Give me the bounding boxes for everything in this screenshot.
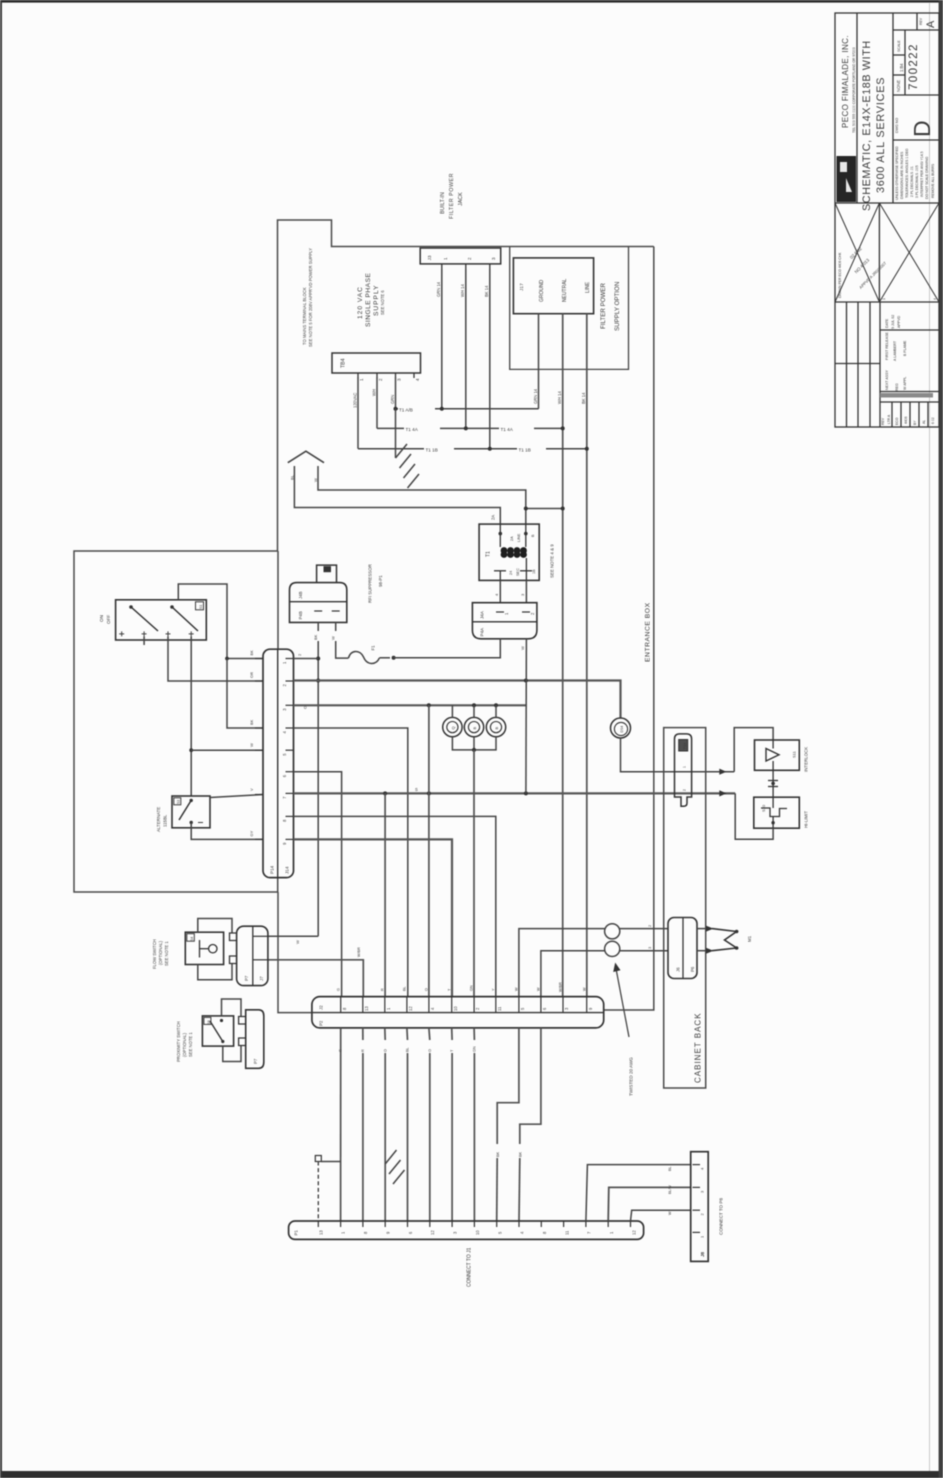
wire: J3 pin3 BK 14 down bbox=[484, 269, 490, 449]
svg-text:1:B4: 1:B4 bbox=[899, 63, 904, 72]
wire: flow switch J7 pin2 to P2 pin2 bbox=[268, 960, 363, 997]
wire: J3 pin1 GRN 14 down to node bbox=[436, 269, 442, 409]
svg-text:SCHEMATIC, E14X-E18B WITH: SCHEMATIC, E14X-E18B WITH bbox=[861, 40, 873, 211]
svg-text:WH: WH bbox=[372, 389, 377, 396]
svg-text:J4A: J4A bbox=[480, 610, 485, 619]
svg-text:P14: P14 bbox=[270, 865, 275, 874]
svg-text:M1: M1 bbox=[747, 935, 752, 942]
junction: lamp bus taps bbox=[427, 703, 431, 707]
wire: RFI/pin1 feed over to flow switch J7 pin1 bbox=[268, 935, 318, 937]
svg-text:GROUND: GROUND bbox=[539, 279, 545, 302]
wire row: J14 pin4 to P2 pin4 bbox=[294, 728, 408, 997]
connector P7 (proximity, unmated) bbox=[239, 1010, 264, 1069]
junction: P4A pin2 wire on white bus bbox=[524, 679, 528, 683]
wire: P14 pin1 stub from jumper bbox=[227, 658, 263, 660]
svg-text:REV: REV bbox=[919, 17, 923, 25]
svg-text:FLOW SWITCH: FLOW SWITCH bbox=[152, 939, 157, 969]
junction: TB4-3 / ground stem bbox=[394, 407, 398, 411]
svg-text:INTERLOCK: INTERLOCK bbox=[804, 747, 809, 772]
P14 pin stubs (left side) bbox=[255, 659, 263, 840]
svg-text:TEL 503 555 0100 CORPORATE POR: TEL 503 555 0100 CORPORATE PORTLAND OR 9… bbox=[852, 47, 856, 133]
svg-text:700222: 700222 bbox=[908, 43, 920, 90]
transformer T1 bbox=[479, 524, 539, 580]
wire: S1 contact stub bbox=[143, 636, 145, 645]
svg-text:BK: BK bbox=[249, 719, 254, 725]
svg-text:A LAMBERT: A LAMBERT bbox=[893, 340, 897, 361]
svg-text:BK: BK bbox=[249, 650, 254, 656]
svg-text:REG: REG bbox=[895, 383, 899, 391]
svg-text:120VAC: 120VAC bbox=[353, 393, 358, 408]
wire: alternate bottom contact to P14 pin9 bbox=[191, 823, 263, 840]
svg-text:1B: 1B bbox=[532, 569, 536, 574]
label: 120 VAC SINGLE PHASE SUPPLY bbox=[357, 273, 385, 327]
svg-text:2: 2 bbox=[467, 257, 472, 260]
wires: proximity switch loop to P7 bbox=[222, 999, 242, 1062]
label: PROXIMITY SWITCH (OPTIONAL) SEE NOTE 1 bbox=[176, 1021, 193, 1062]
svg-text:12: 12 bbox=[430, 1230, 435, 1235]
T1 winding bbox=[501, 547, 527, 558]
svg-text:W/BR: W/BR bbox=[357, 947, 361, 957]
cabinet back panel box bbox=[664, 728, 706, 1088]
chassis ground symbol (supply area) bbox=[396, 409, 420, 488]
switch compartment box (left of entrance box) bbox=[74, 551, 278, 892]
wire: neutral feed to T1 via jog bbox=[526, 508, 563, 510]
connector J3 (built-in filter power jack) bbox=[420, 248, 501, 269]
wire row: neutral bus T1 4A (TB4 pin2 + J3 pin2 + J17 neutral) bbox=[377, 378, 563, 429]
connector P14 / J14 bbox=[255, 649, 294, 877]
svg-text:BL: BL bbox=[290, 474, 295, 480]
svg-text:TS3: TS3 bbox=[683, 743, 687, 750]
svg-text:G: G bbox=[339, 1049, 343, 1052]
svg-text:3: 3 bbox=[648, 947, 652, 949]
T1 internal pins bbox=[494, 524, 532, 580]
svg-text:DRAWN PER ECO 4406 CHK: DRAWN PER ECO 4406 CHK bbox=[838, 252, 842, 298]
svg-text:T1: T1 bbox=[486, 551, 492, 557]
svg-text:TO MAINS TERMINAL BLOCK: TO MAINS TERMINAL BLOCK bbox=[302, 287, 307, 345]
wire: pin7 bus tap down to P2 pin3 bbox=[384, 793, 386, 996]
wire: J17 neutral WH 14 down long to P2 pin 11 bbox=[557, 314, 563, 997]
arrowhead into interlock wire bbox=[719, 769, 726, 775]
svg-text:UNLESS OTHERWISE SPECIFIED: UNLESS OTHERWISE SPECIFIED bbox=[895, 146, 899, 200]
svg-text:Q: Q bbox=[450, 726, 455, 729]
junction: taps on pin7 bus bbox=[383, 791, 387, 795]
svg-text:BK: BK bbox=[519, 1151, 523, 1157]
svg-text:P4B: P4B bbox=[298, 611, 303, 619]
svg-text:BK 14: BK 14 bbox=[484, 285, 489, 297]
toggle switch S1 (ON/OFF DPST) bbox=[99, 600, 206, 640]
junction: tap to P14 pin5 bbox=[189, 748, 193, 752]
wire: P2 pin9 up and over to J6 pin1 bbox=[519, 929, 668, 997]
svg-text:WH 14: WH 14 bbox=[460, 284, 465, 297]
svg-text:S11: S11 bbox=[792, 750, 797, 758]
svg-text:4: 4 bbox=[933, 298, 937, 300]
svg-text:W/BR: W/BR bbox=[559, 982, 563, 992]
svg-text:ECO: ECO bbox=[895, 417, 899, 425]
label: RFI SUPPRESSOR bbox=[368, 564, 384, 603]
svg-text:P7: P7 bbox=[253, 1058, 258, 1064]
wire row: J14 pin3 lamp bus bbox=[294, 704, 527, 706]
svg-text:GN: GN bbox=[473, 1046, 477, 1052]
svg-text:P1: P1 bbox=[294, 1230, 299, 1236]
svg-text:2: 2 bbox=[683, 789, 687, 791]
P1 pin numbers bbox=[319, 1230, 637, 1235]
wires: flow switch loop to P7 bbox=[198, 919, 232, 980]
svg-text:W: W bbox=[313, 478, 318, 482]
svg-text:LTR A: LTR A bbox=[887, 414, 891, 424]
wires: J6 to heater M1 with arrows bbox=[697, 929, 707, 951]
wire: lamp return down to P2 pin7 bbox=[473, 750, 475, 997]
wire: J17 line BK 14 down long to P2 pin 12 bbox=[581, 314, 587, 997]
svg-text:9 JUL 02: 9 JUL 02 bbox=[891, 315, 895, 329]
svg-text:O: O bbox=[425, 988, 429, 991]
wire: S1 jumper up-over to P14 pin1 bbox=[178, 584, 227, 659]
wire: P4A pin2 drop through buses bbox=[525, 639, 528, 794]
connector J2/P2 strip bbox=[312, 997, 604, 1028]
svg-text:T1 1B: T1 1B bbox=[519, 448, 531, 453]
svg-text:W: W bbox=[668, 1211, 672, 1215]
svg-text:SEE NOTE 1: SEE NOTE 1 bbox=[188, 1032, 193, 1057]
wire row: J14 pin6 to P2 pin1 bbox=[294, 772, 342, 997]
svg-text:PROXIMITY SWITCH: PROXIMITY SWITCH bbox=[176, 1021, 181, 1062]
wire: J8 pin4 to P1 pin13 bbox=[586, 1165, 691, 1221]
approval box diagonal notes bbox=[838, 246, 937, 300]
wire: DS4 bottom to J9 row bbox=[621, 738, 735, 772]
svg-text:R: R bbox=[381, 988, 385, 991]
svg-text:3: 3 bbox=[491, 257, 496, 260]
svg-text:W: W bbox=[331, 636, 336, 640]
svg-text:24: 24 bbox=[509, 571, 513, 575]
wire: J8 pin2 to P1 pin15 bbox=[631, 1210, 691, 1221]
svg-text:BK: BK bbox=[496, 1151, 500, 1157]
svg-text:WH 14: WH 14 bbox=[557, 391, 562, 404]
svg-text:BL/W: BL/W bbox=[668, 1185, 672, 1194]
flow switch S4 assembly bbox=[185, 932, 223, 964]
svg-text:2A: 2A bbox=[491, 515, 496, 520]
lamp DS4 bbox=[611, 718, 631, 738]
svg-text:S1: S1 bbox=[199, 605, 203, 609]
wire: RFI right pin down to fuse bbox=[336, 622, 349, 658]
wire: lamp bus tap down to P2 pin5 bbox=[428, 705, 430, 996]
svg-text:1: 1 bbox=[359, 378, 364, 381]
connector J8 bbox=[691, 1152, 709, 1262]
svg-text:115BL: 115BL bbox=[163, 814, 168, 827]
svg-text:6 02: 6 02 bbox=[931, 417, 935, 424]
inline connector pins between interlock and hi-limit bbox=[768, 770, 778, 797]
svg-text:11: 11 bbox=[565, 1230, 570, 1235]
svg-text:A: A bbox=[925, 20, 937, 28]
proximity switch S8 assembly bbox=[202, 1016, 233, 1046]
svg-text:REV: REV bbox=[881, 417, 885, 425]
svg-text:D: D bbox=[909, 120, 935, 137]
connector P4A / J4A bbox=[472, 603, 537, 639]
terminal block TB4 bbox=[332, 353, 421, 381]
svg-text:1: 1 bbox=[443, 257, 448, 260]
svg-text:GRN: GRN bbox=[390, 395, 395, 404]
svg-text:2A: 2A bbox=[510, 536, 514, 541]
svg-text:P4A: P4A bbox=[480, 627, 485, 637]
svg-text:SEC: SEC bbox=[516, 568, 520, 576]
svg-text:BL: BL bbox=[403, 986, 407, 991]
svg-text:4406: 4406 bbox=[904, 416, 908, 424]
svg-text:11: 11 bbox=[497, 1006, 502, 1011]
svg-text:DIMENSIONS ARE IN INCHES: DIMENSIONS ARE IN INCHES bbox=[900, 151, 904, 199]
connector J9/P9 (thermostat plug) bbox=[675, 734, 692, 806]
svg-text:BL: BL bbox=[668, 1166, 672, 1171]
drawing title text bbox=[861, 40, 887, 211]
junction: lamp return bbox=[472, 748, 476, 752]
twisted pair callout arrow bbox=[616, 966, 630, 1037]
filter power supply option outer box bbox=[510, 247, 629, 369]
svg-text:BY: BY bbox=[913, 420, 917, 425]
svg-text:B: B bbox=[494, 727, 499, 730]
svg-text:DS4: DS4 bbox=[620, 726, 624, 733]
P1 pin ticks (pins 1-15) bbox=[318, 1221, 630, 1227]
svg-text:DWG NO: DWG NO bbox=[895, 118, 899, 133]
svg-text:TB4: TB4 bbox=[341, 358, 347, 368]
TB4 pin numbers 1 2 3 4 bbox=[359, 378, 420, 381]
svg-text:W: W bbox=[249, 743, 254, 747]
svg-text:12: 12 bbox=[632, 1230, 637, 1235]
svg-text:4: 4 bbox=[415, 378, 420, 381]
svg-text:W: W bbox=[295, 940, 300, 944]
wire: chevron left lead to T1 2A bbox=[294, 466, 500, 524]
TITLE BLOCK (drawing title block, bottom-right of landscape sheet) bbox=[835, 13, 939, 427]
svg-text:AL: AL bbox=[922, 420, 926, 424]
svg-text:TWISTED 20 AWG: TWISTED 20 AWG bbox=[629, 1057, 634, 1096]
wire: S1 to alternate switch long drop bbox=[190, 636, 192, 796]
svg-text:T1 4A: T1 4A bbox=[406, 427, 419, 432]
interlock switch S11 box bbox=[755, 740, 800, 770]
svg-text:CONNECT TO J1: CONNECT TO J1 bbox=[467, 1247, 473, 1287]
junction: J17 line on bus bbox=[585, 447, 589, 451]
svg-text:FILTER POWER: FILTER POWER bbox=[449, 173, 455, 219]
junction: jumper node pin1 bbox=[225, 657, 229, 661]
wire: hi-limit return loop to pin7 bus bbox=[735, 793, 773, 839]
svg-text:RFI SUPPRESSOR: RFI SUPPRESSOR bbox=[368, 564, 373, 603]
svg-text:FIRST RELEASE: FIRST RELEASE bbox=[885, 332, 889, 360]
svg-text:2 PL DECIMALS .01: 2 PL DECIMALS .01 bbox=[910, 166, 914, 197]
svg-text:ENTRANCE BOX: ENTRANCE BOX bbox=[645, 602, 652, 662]
svg-text:P2: P2 bbox=[319, 1020, 324, 1026]
svg-text:(OPTIONAL): (OPTIONAL) bbox=[158, 940, 163, 965]
hi-limit thermostat S10 box bbox=[754, 797, 800, 828]
svg-text:O: O bbox=[384, 1049, 388, 1052]
svg-text:G: G bbox=[337, 988, 341, 991]
J2 pin numbers bbox=[342, 1006, 593, 1011]
connector J17 (filter supply terminals) bbox=[513, 258, 593, 314]
tolerance notes block bbox=[895, 146, 935, 200]
svg-text:2: 2 bbox=[648, 925, 652, 927]
junction: T1 line pin node bbox=[524, 507, 528, 511]
svg-text:(OPTIONAL): (OPTIONAL) bbox=[182, 1032, 187, 1057]
svg-text:J7: J7 bbox=[259, 976, 264, 981]
svg-text:13: 13 bbox=[364, 1006, 369, 1011]
wire row: J14 pin8 to P2 pin8 bbox=[294, 816, 496, 996]
label: BUILT-IN FILTER POWER JACK bbox=[440, 173, 464, 219]
svg-text:GN: GN bbox=[470, 985, 474, 991]
wire row: ground bus T1 A/B (TB4 pin3 + J3 pin1 + J17 ground) bbox=[396, 378, 539, 409]
svg-text:1: 1 bbox=[683, 766, 687, 768]
label: TO MAINS TERMINAL BLOCK note bbox=[302, 248, 313, 347]
svg-text:JACK: JACK bbox=[458, 192, 464, 206]
wire row: J14 pin7 bus to interlock bbox=[294, 792, 736, 794]
lamp bottom bus bbox=[452, 737, 496, 750]
junction: neutral tap bbox=[561, 507, 565, 511]
svg-text:CABINET BACK: CABINET BACK bbox=[694, 1012, 703, 1083]
power entry chevron flag bbox=[288, 451, 324, 463]
small title block cells text bbox=[895, 17, 923, 133]
svg-text:DO NOT SCALE DRAWING: DO NOT SCALE DRAWING bbox=[925, 156, 929, 199]
svg-text:CONNECT TO P8: CONNECT TO P8 bbox=[719, 1198, 724, 1235]
svg-text:J8: J8 bbox=[700, 1251, 705, 1257]
wire: alternate top contact to P14 pin7 bbox=[210, 795, 263, 798]
svg-text:GY: GY bbox=[249, 830, 254, 836]
svg-text:SEE NOTE 6: SEE NOTE 6 bbox=[380, 290, 385, 315]
svg-text:TOLERANCES: ANGLES 1 DEG: TOLERANCES: ANGLES 1 DEG bbox=[905, 148, 909, 198]
svg-text:W: W bbox=[583, 987, 587, 991]
svg-text:O: O bbox=[428, 1049, 432, 1052]
svg-text:13: 13 bbox=[319, 1230, 324, 1235]
svg-text:J17: J17 bbox=[519, 283, 525, 291]
connector J6/P6 bbox=[668, 918, 697, 979]
svg-text:DATE: DATE bbox=[885, 318, 889, 328]
svg-text:V: V bbox=[249, 788, 254, 791]
wire: P2 pin9 jog down to P1 pin9 with BK label bbox=[497, 1028, 519, 1221]
svg-text:ON: ON bbox=[99, 615, 104, 622]
wire: P2 pin10 jog down to P1 pin10 with BK label bbox=[519, 1028, 541, 1221]
indicator lamps DS1 DS2 DS3 bbox=[443, 717, 506, 736]
svg-text:10: 10 bbox=[475, 1230, 480, 1235]
wires: P2 pins 1-7 down to P1 with color labels bbox=[341, 1028, 475, 1221]
wire: J8 pin3 to P1 pin14 bbox=[608, 1187, 691, 1221]
J14 pin ticks (pins 1-9) bbox=[286, 659, 294, 840]
wire: J17 ground GRN 14 down bbox=[533, 314, 539, 409]
svg-text:S3: S3 bbox=[177, 800, 181, 804]
alternate switch S3 box bbox=[172, 796, 210, 828]
svg-text:O: O bbox=[303, 706, 308, 709]
svg-text:R: R bbox=[361, 1049, 365, 1052]
J2 pin ticks (pins 1-12) bbox=[341, 997, 587, 1013]
svg-text:B: B bbox=[472, 727, 477, 730]
chassis ground at P1 pin3 wire bbox=[385, 1150, 404, 1184]
label: FLOW SWITCH (OPTIONAL) SEE NOTE 1 bbox=[152, 939, 169, 969]
svg-text:W APPL: W APPL bbox=[903, 377, 907, 390]
wire: T1 secondary pins to P4A bbox=[500, 580, 526, 602]
svg-text:T1 1B: T1 1B bbox=[426, 448, 438, 453]
junction: fuse output node bbox=[392, 656, 396, 660]
wire: J3 pin2 WH 14 down bbox=[460, 269, 466, 428]
svg-text:INTERPRET PER ANSI Y14.5: INTERPRET PER ANSI Y14.5 bbox=[920, 151, 924, 197]
svg-text:NONE: NONE bbox=[896, 80, 901, 92]
svg-text:SUPPLY: SUPPLY bbox=[373, 284, 380, 316]
lamp top stubs bbox=[452, 705, 496, 717]
svg-text:SUPPLY OPTION: SUPPLY OPTION bbox=[614, 282, 621, 331]
svg-text:J4B: J4B bbox=[298, 591, 303, 599]
wire row: line bus T1 1B (TB4 pin1 + J3 pin3 + J17 line) bbox=[358, 378, 587, 449]
svg-text:FILTER POWER: FILTER POWER bbox=[600, 283, 607, 329]
junction: J3-1 on ground bus bbox=[440, 407, 444, 411]
wire row: J14 pin2 white bus to lamp DS4 bbox=[294, 681, 621, 719]
svg-text:J6: J6 bbox=[676, 967, 681, 972]
wire row: J14 pin1 to RFI node bbox=[294, 658, 319, 660]
J14 pin numbers bbox=[282, 661, 287, 845]
wire: chevron right lead to T1 line pin bbox=[318, 466, 526, 524]
revision table text bbox=[881, 315, 935, 425]
wire: S1 pole2 contact to P14 pin2 bbox=[168, 636, 263, 681]
svg-text:12: 12 bbox=[408, 1006, 413, 1011]
junction: RFI pin at P14 pin1 wire bbox=[316, 657, 320, 661]
svg-text:SEE NOTE 5 FOR 208V APPR'VD PO: SEE NOTE 5 FOR 208V APPR'VD POWER SUPPLY bbox=[308, 248, 313, 347]
wire: loop up-over into interlock box bbox=[734, 728, 773, 772]
svg-text:BK: BK bbox=[313, 634, 318, 640]
label: ALTERNATE 115BL bbox=[156, 807, 168, 832]
svg-text:10: 10 bbox=[453, 1006, 458, 1011]
svg-text:SEE NOTE 1: SEE NOTE 1 bbox=[164, 941, 169, 966]
svg-text:P7: P7 bbox=[244, 975, 249, 981]
svg-text:J2: J2 bbox=[319, 1005, 324, 1010]
svg-text:LINE: LINE bbox=[517, 533, 521, 542]
wire: tap to P14 pin5 bbox=[191, 749, 263, 751]
svg-text:P6: P6 bbox=[690, 966, 695, 972]
svg-text:GRN 14: GRN 14 bbox=[436, 281, 441, 297]
svg-text:B FLAME: B FLAME bbox=[903, 340, 907, 356]
wire: P2 pin10 up and over to J6 pin2 bbox=[541, 951, 668, 997]
wire: RFI left pin down through node to flow switch bbox=[317, 622, 319, 936]
svg-text:SINGLE PHASE: SINGLE PHASE bbox=[365, 273, 372, 327]
svg-text:3: 3 bbox=[397, 378, 402, 381]
shield drain square at P1 pin1 bbox=[315, 1156, 340, 1222]
svg-text:3 PL DECIMALS .005: 3 PL DECIMALS .005 bbox=[915, 165, 919, 198]
svg-text:NEUTRAL: NEUTRAL bbox=[562, 278, 568, 302]
junction: J3-2 on neutral bus bbox=[464, 426, 468, 430]
svg-text:PECO FIMALADE, INC.: PECO FIMALADE, INC. bbox=[841, 35, 850, 128]
svg-text:98-P1: 98-P1 bbox=[378, 575, 383, 587]
svg-text:APPVD: APPVD bbox=[897, 315, 901, 328]
svg-text:SCALE: SCALE bbox=[897, 40, 901, 52]
svg-text:REMOVE ALL BURRS: REMOVE ALL BURRS bbox=[931, 163, 935, 198]
svg-text:T1 4A: T1 4A bbox=[501, 427, 514, 432]
RFI suppressor connector J4B/P4B bbox=[290, 565, 347, 622]
wire: fuse output to P4A pin1 bbox=[394, 639, 501, 658]
arrowhead on pin7 bus bbox=[719, 790, 726, 796]
svg-text:GRN 14: GRN 14 bbox=[533, 388, 538, 404]
svg-text:BL: BL bbox=[406, 1047, 410, 1052]
svg-text:J3: J3 bbox=[427, 255, 433, 260]
connector P7/J7 (flow switch) bbox=[230, 926, 268, 985]
svg-text:2: 2 bbox=[378, 378, 383, 381]
junction: RFI line crossing white bus bbox=[316, 679, 320, 683]
svg-text:SEE NOTE 4 & 9: SEE NOTE 4 & 9 bbox=[550, 544, 555, 578]
svg-text:S: S bbox=[415, 787, 418, 792]
junction: J3-3 on line bus bbox=[488, 447, 492, 451]
twisted pair symbol bbox=[605, 924, 620, 957]
svg-text:LINE: LINE bbox=[585, 281, 591, 293]
svg-text:OFF: OFF bbox=[106, 615, 111, 624]
company logo bbox=[837, 156, 857, 202]
svg-text:1: 1 bbox=[882, 298, 886, 300]
label: FILTER POWER SUPPLY OPTION bbox=[600, 282, 621, 331]
svg-text:S4: S4 bbox=[190, 937, 194, 941]
svg-text:ALTERNATE: ALTERNATE bbox=[156, 807, 161, 832]
svg-text:W: W bbox=[537, 987, 541, 991]
company name text bbox=[841, 35, 856, 133]
svg-text:HI-LIMIT: HI-LIMIT bbox=[804, 811, 809, 828]
svg-text:T1 A/B: T1 A/B bbox=[399, 408, 413, 413]
connector P1 strip bbox=[289, 1221, 644, 1239]
svg-text:NEXT ASSY: NEXT ASSY bbox=[885, 369, 889, 390]
fuse F1 bbox=[348, 652, 390, 664]
svg-text:120 VAC: 120 VAC bbox=[357, 286, 364, 319]
